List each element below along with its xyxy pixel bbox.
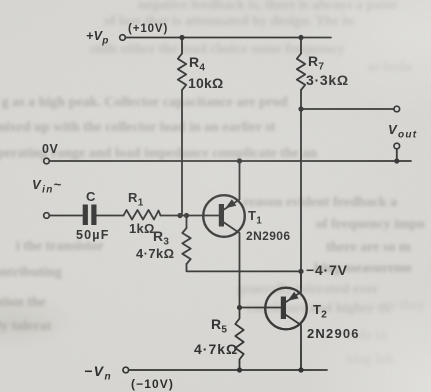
node R4 top junction (179, 35, 184, 40)
wire T2 base (240, 307, 281, 309)
terminal +Vp (120, 35, 126, 41)
node R3 top junction (184, 213, 189, 218)
label R3 (153, 228, 169, 248)
label T1 (248, 208, 262, 227)
label 2N2906 T2 (307, 326, 360, 341)
transistor T1 circle (203, 195, 245, 237)
resistor R5 (235, 308, 243, 371)
transistor T1 collector lead (224, 223, 240, 308)
wire R3 bottom elbow to T2 emitter node (187, 264, 302, 271)
label -Vn (84, 363, 112, 383)
label 4.7kΩ R3 (136, 246, 174, 261)
label 3.3kΩ (306, 72, 349, 88)
node R3/T2-emitter junction (298, 269, 303, 274)
label +Vp (86, 29, 109, 47)
node T2 base junction (237, 305, 242, 310)
label T2 (313, 302, 327, 321)
transistor T2 emitter lead (286, 271, 301, 302)
resistor R3 (182, 228, 190, 264)
node T1 emitter rail junction (237, 158, 242, 163)
wire Vout lower stub (396, 149, 398, 161)
wire R3 top stub (186, 216, 188, 229)
wire -10V bottom rail (129, 369, 327, 371)
wire to Vout terminal (301, 108, 394, 110)
label 2N2906 T1 (246, 229, 290, 243)
transistor T1 emitter arrow (225, 199, 236, 208)
label R4 (189, 54, 205, 74)
label 0V (42, 142, 58, 156)
transistor T2 collector lead (286, 315, 301, 370)
node R7 top junction (298, 35, 303, 40)
label 10kΩ (188, 75, 223, 91)
label 50µF (76, 228, 110, 242)
node Vout junction (298, 106, 303, 111)
label (+10V) (128, 23, 168, 35)
node R4/base junction (177, 213, 182, 218)
wire R4 top stub (181, 38, 183, 54)
transistor T2 emitter arrow (288, 292, 299, 301)
label 4.7kΩ R5 (194, 341, 238, 357)
wire +10V top rail (126, 37, 332, 39)
wire capacitor to R1 (97, 215, 124, 217)
terminal -Vn (123, 367, 129, 373)
terminal Vout upper (394, 106, 400, 112)
resistor R7 (297, 54, 305, 91)
label R5 (211, 316, 227, 336)
wire R7 bottom down to T2 emitter (300, 90, 302, 288)
label R1 (128, 190, 144, 209)
wire R4 bottom to base junction (181, 90, 183, 216)
node Vout lower rail junction (394, 158, 399, 163)
transistor T2 base bar (281, 297, 286, 320)
wire R7 top stub (300, 38, 302, 54)
transistor T1 base bar (219, 204, 224, 227)
resistor R4 (178, 54, 186, 91)
label 1kΩ (129, 221, 155, 236)
terminal Vout lower (394, 143, 400, 149)
capacitor C plate 2 (91, 205, 96, 226)
label Vin (32, 177, 63, 196)
wire 0V rail (50, 160, 412, 162)
wire Vin to capacitor (50, 215, 83, 217)
node T2 collector bottom junction (298, 367, 303, 372)
resistor R1 (124, 210, 161, 220)
transistor T2 circle (265, 288, 307, 330)
label R7 (308, 53, 324, 73)
capacitor C plate 1 (83, 205, 88, 226)
transistor T1 emitter lead (224, 161, 240, 210)
terminal Vin (44, 213, 50, 219)
label (-10V) (131, 377, 174, 391)
wire R1 to T1 base (161, 215, 220, 217)
label -4.7V (306, 262, 348, 278)
label Vout (388, 122, 417, 141)
faint bleed-through page text (138, 0, 398, 14)
node R5 bottom junction (237, 367, 242, 372)
terminal 0V (44, 158, 50, 164)
label C (86, 189, 96, 204)
